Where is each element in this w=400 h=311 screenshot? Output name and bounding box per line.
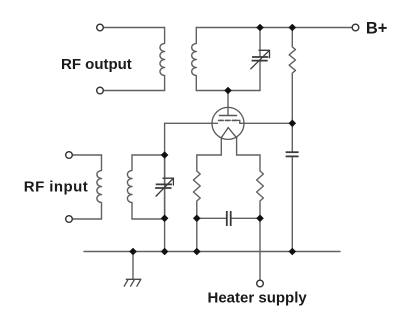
svg-text:RF input: RF input <box>24 178 88 195</box>
svg-text:B+: B+ <box>366 20 388 38</box>
svg-text:Heater supply: Heater supply <box>208 290 308 307</box>
svg-text:RF output: RF output <box>61 56 132 73</box>
